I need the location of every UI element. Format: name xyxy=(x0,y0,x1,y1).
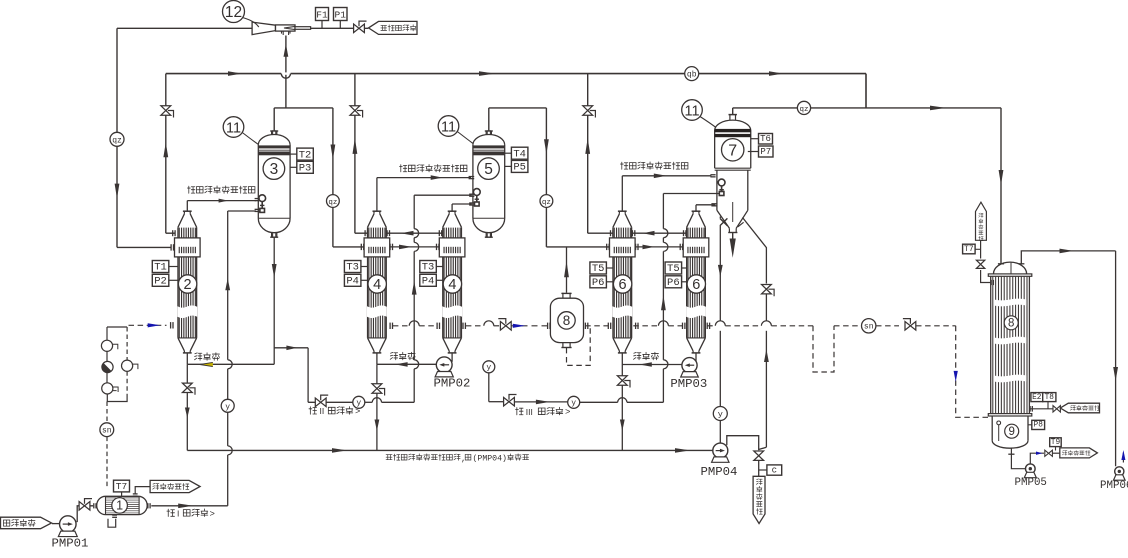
wire circulation line effect II (PMP02 to col4a) xyxy=(376,354,378,365)
svg-text:P5: P5 xyxy=(513,162,526,174)
svg-text:8: 8 xyxy=(1008,318,1014,330)
svg-text:>: > xyxy=(355,407,360,417)
wire header drop at x866 to vapor line xyxy=(865,74,867,108)
valve on concentrate outlet xyxy=(754,451,764,460)
instrument bubble 11 (vessel3) xyxy=(223,117,244,138)
instrument box P1 xyxy=(334,8,348,29)
svg-text:T4: T4 xyxy=(513,148,526,160)
wire vessel7 vapor line y108 to condenser xyxy=(733,107,1001,109)
separator vessel 7 xyxy=(715,115,751,233)
wire steam inlet line y28 xyxy=(117,27,252,29)
instrument boxes E2 T8 xyxy=(1031,393,1043,402)
instrument cluster (level gauge) xyxy=(101,327,137,402)
dashed line col6b to sn/valve/condenser xyxy=(707,321,813,329)
vessel7 side ball fitting xyxy=(710,175,725,206)
svg-text:6: 6 xyxy=(692,277,700,293)
wire tank8 bottom dashed loop xyxy=(567,326,591,366)
wire vessel7 cone left drop to PMP04 xyxy=(719,217,721,219)
valve col2 drain xyxy=(182,383,192,392)
wire cooling water outlet (top left) xyxy=(981,270,991,283)
svg-text:T3: T3 xyxy=(422,262,435,274)
valve on II material line xyxy=(315,398,326,407)
wire PMP05 discharge to condensate outlet xyxy=(1030,453,1044,464)
pennant condensate outlet (HX1) xyxy=(150,480,200,492)
svg-text:sn: sn xyxy=(864,323,874,332)
pennant cooling water inlet xyxy=(1060,403,1099,413)
svg-text:qz: qz xyxy=(112,136,122,145)
svg-text:P2: P2 xyxy=(154,276,167,288)
wire vapor drop x332.9 into col4a belt xyxy=(332,108,334,195)
svg-text:PMP04: PMP04 xyxy=(701,465,738,479)
label to II effect material xyxy=(309,407,317,414)
svg-text:>: > xyxy=(210,509,215,519)
instrument box T7 (condenser) xyxy=(963,244,976,254)
label to-separator text (effect I) xyxy=(187,186,194,193)
evaporator column 6 (second) xyxy=(665,211,709,353)
valve col6a drain xyxy=(617,376,627,385)
wire HX1 condensate to pennant xyxy=(135,487,150,494)
dashed drop to condenser bottom xyxy=(956,326,991,418)
wire PMP06 discharge blue arrow xyxy=(1122,453,1124,463)
instrument bubble qb on header xyxy=(685,67,699,81)
svg-text:P8: P8 xyxy=(1034,422,1044,430)
dashed line tank8 to col6a xyxy=(585,325,608,327)
pennant condensate outlet (vessel9) xyxy=(1060,448,1098,458)
wire ejector inlet down from left header x117 (qz line) xyxy=(116,28,118,132)
pump PMP03 xyxy=(670,358,707,392)
svg-text:9: 9 xyxy=(1008,426,1014,438)
evaporator column 2 xyxy=(152,211,200,353)
svg-text:qz: qz xyxy=(542,199,551,207)
instrument bubble 11 (vessel5) xyxy=(438,116,459,137)
wire PMP01 to HX1 xyxy=(77,506,94,522)
wire col2 top to vessel3 (vapor-liquid separation) xyxy=(186,201,188,212)
svg-text:qb: qb xyxy=(687,71,697,80)
wire branch to effect II at y347.8 xyxy=(274,347,308,349)
wire vessel3 bottom drop xyxy=(273,237,275,364)
svg-text:PMP02: PMP02 xyxy=(434,377,471,391)
dashed line col4a to col4b xyxy=(390,321,439,329)
svg-text:4: 4 xyxy=(448,277,456,293)
wire link col4a-col4b belt y246.9 xyxy=(390,246,440,248)
pennant concentrate outlet (vertical, pointing down) xyxy=(753,476,765,523)
wire circulation line effect III xyxy=(621,354,623,365)
wire vessel7 top to vapor line xyxy=(732,108,734,115)
instrument bubble 12 with leader xyxy=(223,1,259,28)
wire feed riser x663.4 (to III effect separator) xyxy=(662,194,664,229)
wire vessel7 bottom outlet arrow xyxy=(732,233,734,239)
svg-text:F1: F1 xyxy=(316,10,328,21)
svg-text:8: 8 xyxy=(563,313,571,328)
heat exchanger HX1 (preheater 1) xyxy=(94,494,150,527)
svg-text:PMP03: PMP03 xyxy=(670,377,707,391)
wire residue discharge line to PMP04 xyxy=(187,449,713,451)
wire condenser top-right vent to PMP06 xyxy=(1021,251,1115,264)
receiver vessel 9 xyxy=(992,416,1028,448)
svg-text:P4: P4 xyxy=(422,276,435,288)
svg-text:T5: T5 xyxy=(592,263,605,275)
svg-text:>: > xyxy=(565,408,570,418)
instrument bubble sn (left) xyxy=(106,402,108,423)
svg-text:y: y xyxy=(225,403,230,412)
svg-text:T2: T2 xyxy=(299,149,312,161)
valve on dashed line x910 xyxy=(905,322,916,331)
label circulation pipe (effect II) xyxy=(390,352,397,359)
wire col4b bottom into PMP02 xyxy=(451,354,453,362)
pennant cooling water outlet (vertical, up) xyxy=(976,202,987,241)
pump PMP04 xyxy=(701,443,738,479)
dashed line from instrument cluster to column2 xyxy=(129,324,167,326)
svg-text:qz: qz xyxy=(328,199,337,207)
valve on condensate outlet xyxy=(1045,450,1053,456)
label circulation pipe (effect I) xyxy=(195,353,202,360)
svg-text:P6: P6 xyxy=(667,277,680,289)
wire HX1 outlet to feed riser xyxy=(151,505,227,507)
instrument box P7 xyxy=(759,146,774,157)
svg-text:P4: P4 xyxy=(346,276,359,288)
svg-text:11: 11 xyxy=(226,120,241,136)
svg-text:P7: P7 xyxy=(760,147,771,157)
instrument bubble y on III material line xyxy=(568,396,580,408)
label to I effect material xyxy=(167,509,175,516)
wire ejector suction riser x285.9 xyxy=(285,36,287,108)
svg-text:11: 11 xyxy=(684,103,699,119)
wire vessel9 bottom to PMP05 xyxy=(1008,453,1014,455)
svg-text:PMP01: PMP01 xyxy=(52,536,89,550)
wire col4b top vapor to vessel5 lower fitting xyxy=(451,204,453,211)
svg-text:T7: T7 xyxy=(964,245,974,254)
wire riser col6a to header x587.7 xyxy=(587,74,589,234)
evaporator column 4 (first) xyxy=(344,211,389,353)
label circulation pipe (effect III) xyxy=(634,352,641,359)
wire col6a bottom drain xyxy=(621,365,623,451)
wire link col6a-col6b belt y246.9 xyxy=(635,246,683,248)
valve on dashed line before tank8 xyxy=(500,322,511,331)
instrument bubble y on feed riser xyxy=(221,399,234,412)
condenser column (8) xyxy=(988,262,1032,416)
thermocompressor ejector E12 xyxy=(252,22,311,35)
instrument box F1 xyxy=(316,8,329,29)
wire link col4a-col4b upper y233.2 xyxy=(386,232,442,234)
valve on steam inlet xyxy=(354,24,365,33)
small valve X on cone left line xyxy=(720,218,728,225)
instrument box T7 (HX1) xyxy=(114,480,130,492)
svg-text:6: 6 xyxy=(619,277,627,293)
instrument bubble qz on vessel7 vapor line xyxy=(797,101,810,114)
valve col4a drain xyxy=(372,384,382,393)
evaporator column 4 (second) xyxy=(420,211,465,353)
instrument bubble y (vessel5 drop) xyxy=(483,361,495,373)
dashed line col4b to tank8 with valve and blue arrow xyxy=(463,321,550,329)
svg-text:PMP06: PMP06 xyxy=(1100,480,1128,492)
valve on riser x165.8 xyxy=(161,106,171,115)
instrument box P8 xyxy=(1032,420,1045,429)
instrument bubble y above PMP04 xyxy=(713,407,727,421)
svg-text:4: 4 xyxy=(373,277,381,293)
svg-text:3: 3 xyxy=(270,161,279,178)
label to-separator text (effect II) xyxy=(399,165,406,172)
wire to-III-effect material line y402.3 xyxy=(488,373,490,402)
wire riser col4a to header x354.9 xyxy=(354,74,356,234)
instrument bubble y on II material line xyxy=(353,396,365,408)
evaporator column 6 (first) xyxy=(590,211,635,353)
vessel5 side ball fitting xyxy=(469,189,480,206)
wire main vapor header y73.6 xyxy=(166,73,866,75)
wire cooling water inlet (right) xyxy=(1029,408,1052,410)
wire feed riser x227.7 (to I effect) xyxy=(227,211,229,360)
svg-text:12: 12 xyxy=(225,4,242,21)
flash tank 8 xyxy=(550,293,583,348)
wire vessel5 top riser xyxy=(488,108,490,131)
svg-text:11: 11 xyxy=(441,119,456,135)
svg-text:P1: P1 xyxy=(335,10,347,21)
wire vessel3 vapor line to ejector suction and col4a xyxy=(274,107,333,109)
wire vessel7 cone right diagonal to valve x766.4 xyxy=(743,218,767,284)
instrument box C xyxy=(767,465,782,475)
svg-text:E2: E2 xyxy=(1032,394,1042,402)
svg-text:PMP05: PMP05 xyxy=(1015,477,1047,489)
pump PMP01 xyxy=(52,516,89,550)
svg-text:I: I xyxy=(177,509,179,519)
dashed line col6a to col6b xyxy=(633,321,685,329)
svg-text:5: 5 xyxy=(484,161,493,178)
wire vapor drop x546.4 into col6a belt xyxy=(545,108,547,195)
svg-text:III: III xyxy=(526,407,533,417)
svg-text:P6: P6 xyxy=(592,277,605,289)
wire col2 bottom drain xyxy=(186,364,188,450)
svg-text:y: y xyxy=(486,364,491,373)
svg-text:7: 7 xyxy=(728,142,737,159)
label shutdown residue discharge text xyxy=(386,455,392,460)
wire tank8 vapor to col6a line xyxy=(566,247,568,293)
wire pennant to PMP01 xyxy=(52,523,60,525)
wire to-II-effect material line y402.3 xyxy=(308,401,353,403)
wire qz line into column2 belt xyxy=(117,246,171,248)
wire link col6a-col6b upper y233.2 xyxy=(632,232,687,234)
svg-text:2: 2 xyxy=(184,277,192,293)
wire col4a top to vessel5 (labeled) xyxy=(376,178,378,212)
wire col6a top to vessel7 (labeled) xyxy=(621,176,623,211)
valve on x766.4 xyxy=(762,285,772,294)
wire col4a bottom drain xyxy=(376,364,378,450)
svg-text:T3: T3 xyxy=(346,262,359,274)
yellow circulation arrow xyxy=(200,362,213,366)
wire vessel5 vapor line y108 xyxy=(489,107,547,109)
wire riser col2 to header x165.8 xyxy=(165,74,167,234)
pump PMP05 xyxy=(1015,464,1047,489)
svg-text:(PMP04): (PMP04) xyxy=(473,454,507,464)
label to III effect material xyxy=(516,408,524,415)
separator vessel 3 xyxy=(258,130,313,237)
valve on cooling water outlet xyxy=(976,260,984,268)
wire feed riser x414.2 (to II effect separator) xyxy=(413,195,415,229)
svg-text:T8: T8 xyxy=(1045,394,1055,402)
svg-text:c: c xyxy=(772,465,777,475)
instrument bubble 11 (vessel7) xyxy=(682,100,703,121)
vessel3 side ball fitting xyxy=(255,195,266,213)
svg-text:qz: qz xyxy=(799,106,808,114)
instrument box T6 xyxy=(759,134,773,145)
svg-text:P3: P3 xyxy=(299,163,312,175)
wire hop of header over suction line xyxy=(281,72,290,74)
wire col6b bottom into PMP03 xyxy=(695,354,697,363)
svg-text:sn: sn xyxy=(102,427,112,436)
instrument bubble sn on dashed line xyxy=(862,319,876,333)
separator vessel 5 xyxy=(473,130,528,237)
svg-text:T7: T7 xyxy=(116,481,127,492)
svg-text:T5: T5 xyxy=(667,263,680,275)
label to-separator text (effect III) xyxy=(620,162,627,169)
pump PMP06 xyxy=(1100,467,1128,492)
wire circulation line effect I xyxy=(186,354,188,365)
valve on riser x587.7 xyxy=(583,106,593,115)
svg-text:1: 1 xyxy=(116,499,123,513)
wire PMP04 discharge xyxy=(727,436,759,451)
wire vessel3 top to vapor line xyxy=(273,108,275,131)
valve before HX1 xyxy=(79,502,90,511)
pennant raw liquid inlet xyxy=(1,517,52,529)
svg-text:T6: T6 xyxy=(760,134,771,144)
valve on III material line xyxy=(504,397,515,406)
dashed U dip xyxy=(813,326,834,372)
svg-text:II: II xyxy=(320,406,325,416)
svg-text:y: y xyxy=(571,399,576,408)
svg-text:T9: T9 xyxy=(1051,439,1061,447)
small valve cooling water inlet xyxy=(1053,406,1060,412)
instrument box T9 xyxy=(1050,438,1062,447)
instrument bubble qz on x117 xyxy=(110,132,124,146)
svg-text:y: y xyxy=(718,410,723,420)
valve on riser x354.9 xyxy=(350,106,360,115)
svg-text:T1: T1 xyxy=(154,262,167,274)
wire col6b top vapor to vessel7 lower fitting xyxy=(695,205,697,211)
wire condenser top-left nozzle from vapor line xyxy=(1000,108,1002,264)
pump PMP02 xyxy=(434,357,471,391)
pennant label sheng-zheng-qi-jin-kou (raw steam inlet) xyxy=(369,21,418,34)
